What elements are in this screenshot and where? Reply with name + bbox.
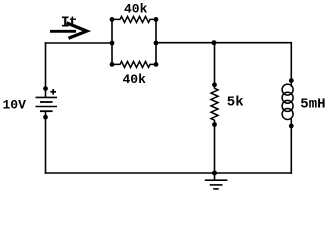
battery plate short — [40, 101, 53, 103]
wire: left vertical from corner down to battery top — [45, 42, 47, 89]
node: 5k resistor bottom terminal — [212, 122, 217, 127]
wire: 5k branch lower vertical — [214, 125, 216, 174]
battery plate short — [40, 110, 53, 112]
battery plate long — [36, 106, 58, 108]
battery plus sign — [50, 89, 56, 95]
battery 10V (voltage source) — [36, 88, 58, 174]
node: inductor top terminal — [289, 78, 294, 83]
wire: parallel network right vertical rail — [155, 19, 157, 64]
node: network top-right — [154, 17, 159, 22]
node: 5k resistor top terminal — [212, 82, 217, 87]
node: network middle-left — [110, 41, 115, 46]
svg-text:40k: 40k — [124, 2, 148, 17]
inductor 5mH (coil) — [282, 81, 293, 126]
svg-text:40k: 40k — [123, 72, 147, 87]
wire: inductor branch lower vertical — [290, 126, 292, 174]
svg-text:10V: 10V — [3, 98, 27, 113]
node: battery bottom terminal — [43, 115, 48, 120]
ground — [205, 173, 228, 189]
node: inductor bottom terminal — [289, 124, 294, 129]
wire: stub battery bottom to rail — [45, 111, 47, 174]
wire: stub battery top — [45, 88, 47, 97]
node: junction of 5k branch on top rail — [212, 40, 217, 45]
svg-text:5mH: 5mH — [300, 97, 325, 113]
node: network bottom-right — [154, 62, 159, 67]
node: network bottom-left — [110, 62, 115, 67]
resistor 40k (bottom of parallel pair) — [112, 61, 156, 67]
current arrow It — [50, 23, 87, 38]
wire: bottom rail — [45, 172, 292, 174]
node: network top-left — [110, 17, 115, 22]
node: network middle-right — [154, 41, 159, 46]
wire: parallel network left vertical rail — [111, 19, 113, 64]
wire: 5k branch upper vertical — [214, 43, 216, 85]
wire: top rail from network to right corner — [156, 42, 291, 44]
node: ground junction on bottom rail — [212, 171, 217, 176]
node: battery top terminal — [43, 86, 48, 91]
svg-text:5k: 5k — [227, 95, 244, 111]
battery plate long (top, +) — [36, 96, 58, 98]
wire: top-left horizontal from battery corner to parallel network — [45, 42, 112, 44]
wire: right vertical from top rail corner down to inductor — [290, 42, 292, 81]
resistor 5k — [211, 85, 218, 125]
resistor 40k (top of parallel pair) — [112, 16, 156, 22]
